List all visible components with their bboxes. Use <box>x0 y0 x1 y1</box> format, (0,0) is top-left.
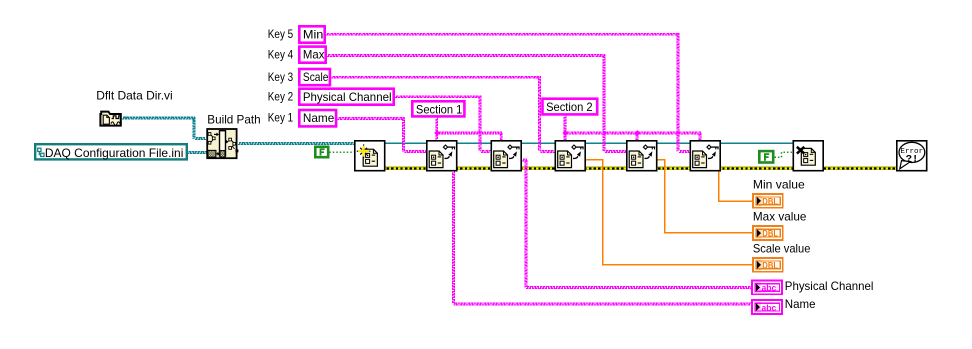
wire: DBL Max value output <box>658 160 753 233</box>
node: Simple Error Handler.vi <box>897 141 927 171</box>
svg-text:Key 2: Key 2 <box>268 89 294 103</box>
junction: section 2 branch at key 4 <box>635 130 641 136</box>
svg-text:Min: Min <box>303 27 324 41</box>
svg-text:Dflt Data Dir.vi: Dflt Data Dir.vi <box>96 88 173 102</box>
svg-text:Scale: Scale <box>303 70 329 84</box>
wire: string Name output -> Name indicator <box>453 171 455 303</box>
wire: string Key2 Physical Channel -> read key 2 <box>395 96 481 98</box>
wire: string Key4 Max -> read key 4 <box>327 55 605 57</box>
wire: error cluster open config -> error handler <box>386 167 896 170</box>
constant: DAQ Configuration File.ini path <box>35 144 187 159</box>
constant: Section 2 <box>543 99 598 115</box>
wire: path DAQ constant to Build Path <box>187 152 206 154</box>
constant: boolean False F2 <box>759 151 773 162</box>
node: Close Config Data.vi <box>793 141 823 171</box>
node: Read Key.vi (Physical Channel) <box>491 141 521 171</box>
constant: Max (Key 4) <box>299 47 325 63</box>
constant: Scale (Key 3) <box>299 69 330 85</box>
node: Open Config Data.vi <box>355 141 385 171</box>
svg-text:Section 1: Section 1 <box>416 102 463 116</box>
node: Read Key.vi (Max) <box>627 141 657 171</box>
subVI icon: Dflt Data Dir.vi (folder) <box>100 112 120 126</box>
svg-text:DBL: DBL <box>762 229 778 239</box>
svg-text:Min value: Min value <box>753 177 805 191</box>
node: Read Key.vi (Scale) <box>555 141 585 171</box>
wire: string Key1 Name -> read key 1 <box>337 118 404 120</box>
svg-text:Physical Channel: Physical Channel <box>785 279 874 293</box>
indicator: Physical Channel string <box>752 281 782 295</box>
svg-text:Name: Name <box>303 111 335 125</box>
node: Read Key.vi (Min) <box>690 141 720 171</box>
wire: Section 1 to read key 1 and 2 tops <box>436 118 438 140</box>
svg-text:Physical Channel: Physical Channel <box>303 90 392 104</box>
wire: string Key3 Scale -> read key 3 <box>331 76 540 78</box>
svg-text:abc: abc <box>762 302 777 313</box>
indicator: Name string <box>752 300 782 314</box>
wire: DBL Min value output <box>719 171 752 201</box>
svg-text:Key 4: Key 4 <box>268 47 294 61</box>
svg-text:Key 1: Key 1 <box>268 111 294 125</box>
svg-text:Build Path: Build Path <box>207 112 260 126</box>
junction: section 1 branch <box>434 130 440 136</box>
indicator: Max value DBL <box>753 226 783 240</box>
svg-text:Max: Max <box>303 48 325 62</box>
function: Build Path <box>207 129 236 158</box>
svg-text:Section 2: Section 2 <box>546 100 593 114</box>
svg-text:Name: Name <box>785 297 816 311</box>
constant: Name (Key 1) <box>299 110 336 126</box>
constant: Min (Key 5) <box>299 26 324 42</box>
node: Read Key.vi (Name) <box>427 141 457 171</box>
wire: config refnum (teal) open->close <box>386 142 793 144</box>
svg-text:Key 5: Key 5 <box>268 27 294 41</box>
wire: path Build Path -> Open Config Data <box>238 143 354 145</box>
wire: Section 2 to read key 3,4,5 tops <box>564 116 566 140</box>
svg-text:Max value: Max value <box>753 210 807 224</box>
svg-text:DBL: DBL <box>762 196 778 206</box>
constant: Physical Channel (Key 2) <box>299 89 393 105</box>
svg-text:abc: abc <box>762 282 777 293</box>
svg-text:DBL: DBL <box>762 260 778 270</box>
wire: boolean F -> Close Config (write file?) <box>775 152 793 157</box>
svg-text:Scale value: Scale value <box>753 241 811 255</box>
wire: path from Dflt Data Dir.vi to Build Path <box>122 117 195 119</box>
wire: string Physical Channel output -> indicator <box>522 159 527 161</box>
indicator: Min value DBL <box>753 194 783 208</box>
wire: string Key5 Min -> read key 5 <box>326 33 679 35</box>
constant: boolean False F1 <box>315 147 328 157</box>
constant: Section 1 <box>412 101 464 116</box>
indicator: Scale value DBL <box>753 258 783 272</box>
svg-text:?!: ?! <box>906 153 919 165</box>
svg-text:DAQ Configuration File.ini: DAQ Configuration File.ini <box>45 146 184 160</box>
wire: DBL Scale value output <box>586 160 752 265</box>
junction: section 2 branch at key 3 <box>563 130 569 136</box>
wire: boolean F -> Open Config (create file?) <box>329 151 354 153</box>
svg-text:Key 3: Key 3 <box>268 70 294 84</box>
